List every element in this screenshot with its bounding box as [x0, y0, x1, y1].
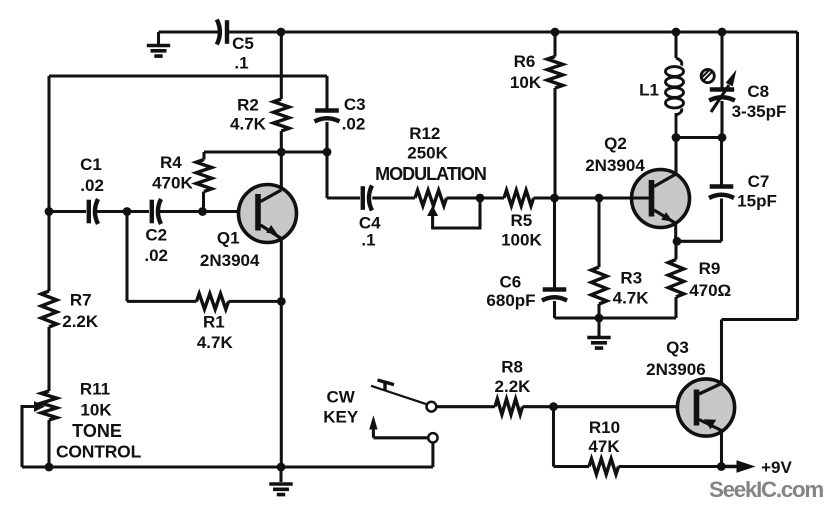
- wire C6 top lead: [553, 198, 556, 290]
- resistor R9: [668, 260, 684, 298]
- wire Q2 collector lead: [674, 138, 677, 176]
- node junction ground line R3: [595, 314, 604, 323]
- wire R3 top lead: [597, 198, 600, 267]
- switch contact top: [427, 402, 437, 412]
- wire ground stub R3: [597, 318, 600, 336]
- svg-text:4.7K: 4.7K: [613, 289, 650, 308]
- trimmer symbol C8: [701, 69, 714, 82]
- svg-text:C7: C7: [748, 172, 770, 191]
- svg-text:4.7K: 4.7K: [197, 333, 234, 352]
- wire left vertical upper: [47, 76, 50, 291]
- ground Q2 bias: [587, 338, 610, 349]
- node junction tank bottom C8: [718, 133, 727, 142]
- wire R11 wiper: [22, 407, 36, 468]
- resistor R4: [196, 160, 212, 192]
- wire C6 bottom lead: [553, 301, 556, 318]
- svg-text:.02: .02: [80, 176, 104, 195]
- svg-text:C3: C3: [344, 95, 366, 114]
- svg-text:10K: 10K: [80, 400, 112, 419]
- wire C8 top lead: [720, 32, 723, 90]
- arrowhead R12 wiper: [427, 206, 438, 217]
- transistor Q1 2N3904: [239, 185, 297, 243]
- svg-text:Q2: Q2: [604, 134, 627, 153]
- svg-text:R9: R9: [699, 259, 721, 278]
- wire Q2 emitter lead: [674, 224, 677, 242]
- wire R5 to junction: [534, 196, 649, 199]
- svg-text:R12: R12: [409, 124, 440, 143]
- wire base line left: [49, 210, 86, 213]
- arrowhead key throw: [369, 415, 377, 429]
- ground bottom middle: [269, 484, 292, 495]
- transistor Q3 2N3906: [677, 379, 734, 436]
- wire second rail: [49, 74, 327, 77]
- capacitor C7: [710, 184, 734, 188]
- svg-text:CW: CW: [327, 388, 356, 407]
- wire Q2 base lead: [599, 196, 650, 199]
- svg-text:680pF: 680pF: [486, 291, 535, 310]
- svg-text:R2: R2: [237, 96, 259, 115]
- svg-text:4.7K: 4.7K: [230, 115, 267, 134]
- svg-text:R7: R7: [70, 291, 92, 310]
- transistor Q2 2N3904: [632, 170, 690, 228]
- wire C3 top lead: [325, 76, 328, 111]
- svg-text:2.2K: 2.2K: [62, 312, 99, 331]
- node junction R8 R10: [549, 402, 558, 411]
- node junction top rail C8: [718, 28, 727, 37]
- arrowhead R11 wiper: [34, 401, 45, 412]
- arrowhead +9V: [737, 460, 756, 472]
- svg-text:C6: C6: [500, 273, 522, 292]
- node junction R12 wiper: [476, 194, 485, 203]
- svg-text:KEY: KEY: [323, 408, 359, 427]
- wire R10 left lead: [554, 407, 590, 467]
- svg-text:.02: .02: [342, 115, 366, 134]
- svg-text:100K: 100K: [501, 231, 542, 250]
- resistor R7: [41, 291, 57, 327]
- resistor R1: [197, 294, 229, 310]
- wire left vertical lower: [47, 420, 50, 467]
- svg-text:CONTROL: CONTROL: [56, 441, 142, 461]
- resistor R5: [504, 190, 534, 206]
- svg-text:.1: .1: [234, 53, 248, 72]
- wire R4 top lead and feedback line: [204, 152, 327, 160]
- resistor R12 potentiometer: [415, 190, 447, 206]
- svg-text:R10: R10: [589, 418, 620, 437]
- wire C3 bottom lead: [327, 122, 360, 198]
- node junction Q1 emitter bottom rail: [277, 463, 286, 472]
- capacitor C6: [543, 287, 567, 291]
- capacitor C2: [150, 200, 154, 224]
- svg-text:Q1: Q1: [217, 229, 240, 248]
- wire key to R8: [436, 405, 495, 408]
- wire key throw link: [373, 429, 428, 438]
- resistor R11 pot: [41, 391, 57, 420]
- capacitor C1: [87, 200, 91, 224]
- svg-text:MODULATION: MODULATION: [375, 164, 486, 184]
- wire bottom ground stub: [279, 467, 282, 482]
- wire Q1 emitter lead: [280, 239, 283, 468]
- wire ground stub top left: [157, 32, 160, 45]
- wire collector jog to Q3: [722, 320, 798, 386]
- node junction left vertical bottom rail: [45, 463, 54, 472]
- wire +9V arrow shaft: [721, 465, 738, 468]
- capacitor C5: [225, 20, 229, 44]
- svg-text:SeekIC.com: SeekIC.com: [709, 477, 823, 502]
- svg-text:R4: R4: [160, 153, 182, 172]
- wire C4 to R12: [372, 196, 415, 199]
- node junction top rail C5: [277, 28, 286, 37]
- wire left vertical middle: [47, 327, 50, 391]
- arrow C8 variable: [711, 85, 729, 112]
- svg-text:250K: 250K: [407, 144, 448, 163]
- wire R8 to Q3 base: [523, 405, 695, 408]
- node junction base R4: [198, 207, 207, 216]
- svg-text:3-35pF: 3-35pF: [732, 102, 787, 121]
- wire key lever: [371, 386, 427, 405]
- svg-text:L1: L1: [639, 81, 659, 100]
- svg-text:TONE: TONE: [72, 421, 122, 441]
- svg-text:470K: 470K: [152, 174, 193, 193]
- svg-text:10K: 10K: [510, 73, 542, 92]
- wire tank bottom: [676, 136, 722, 139]
- wire R12 wiper link: [433, 198, 480, 228]
- inductor L1: [666, 58, 684, 138]
- svg-text:47K: 47K: [588, 437, 620, 456]
- wire top rail C5 to right edge: [228, 30, 798, 33]
- node junction R1 emitter: [277, 297, 286, 306]
- wire bottom rail: [22, 465, 433, 468]
- wire R1 left lead: [127, 212, 197, 302]
- svg-text:C2: C2: [145, 226, 167, 245]
- svg-text:C8: C8: [747, 82, 769, 101]
- wire R12 to R5: [447, 196, 505, 199]
- wire C8 bottom lead: [720, 101, 723, 138]
- capacitor C3: [315, 108, 339, 112]
- svg-text:R6: R6: [514, 52, 536, 71]
- wire right edge vertical: [796, 32, 799, 320]
- node junction base line left: [45, 207, 54, 216]
- node junction collector Q1: [277, 148, 286, 157]
- svg-text:R1: R1: [203, 313, 225, 332]
- node junction C3 feedback: [323, 148, 332, 157]
- wire R10 to +9V junction: [619, 465, 722, 468]
- wire R9 bottom lead: [674, 297, 677, 318]
- capacitor C8 variable: [710, 87, 734, 91]
- wire C7 bottom lead: [677, 199, 722, 242]
- svg-text:C4: C4: [359, 214, 381, 233]
- capacitor C4: [361, 186, 365, 210]
- wire R9 top lead: [674, 241, 677, 259]
- wire L1 top lead: [674, 32, 677, 58]
- wire emitter ground line: [555, 316, 677, 319]
- svg-text:R5: R5: [511, 211, 533, 230]
- resistor R6: [547, 57, 563, 89]
- svg-text:470Ω: 470Ω: [689, 281, 731, 300]
- wire top rail left segment: [159, 30, 219, 33]
- svg-text:2N3904: 2N3904: [200, 251, 260, 270]
- wire R1 right lead: [229, 300, 282, 303]
- node junction C1-C2: [123, 207, 132, 216]
- node junction tank bottom L1: [672, 133, 681, 142]
- svg-text:15pF: 15pF: [737, 191, 777, 210]
- resistor R8: [495, 399, 523, 415]
- svg-text:C1: C1: [80, 155, 102, 174]
- svg-text:2.2K: 2.2K: [495, 377, 532, 396]
- svg-text:2N3906: 2N3906: [646, 360, 706, 379]
- svg-text:R3: R3: [620, 268, 642, 287]
- svg-text:Q3: Q3: [666, 338, 689, 357]
- svg-text:C5: C5: [232, 34, 254, 53]
- wire R6 bottom lead: [553, 88, 556, 198]
- resistor R2: [274, 99, 290, 131]
- switch contact bottom: [428, 433, 437, 442]
- wire R3 bottom lead: [597, 304, 600, 318]
- svg-text:.1: .1: [361, 231, 375, 250]
- svg-text:+9V: +9V: [761, 458, 792, 477]
- wire C2 to Q1 base: [159, 210, 255, 213]
- wire Q3 emitter lead: [720, 431, 723, 467]
- wire R4 bottom lead: [202, 192, 205, 212]
- node junction top rail L1: [672, 28, 681, 37]
- wire R2 top lead: [280, 32, 283, 99]
- svg-text:R11: R11: [80, 380, 110, 399]
- node junction base Q2 left: [550, 194, 559, 203]
- resistor R10: [589, 459, 619, 475]
- svg-text:2N3904: 2N3904: [585, 156, 645, 175]
- key knob: [378, 380, 395, 391]
- svg-text:R8: R8: [501, 358, 523, 377]
- resistor R3: [591, 267, 607, 304]
- svg-text:.02: .02: [144, 246, 168, 265]
- node junction +9V: [717, 462, 726, 471]
- node junction top rail R6: [551, 28, 560, 37]
- wire C1 to C2: [96, 210, 149, 213]
- wire R2 bottom lead: [280, 131, 283, 190]
- wire key bottom lead: [431, 443, 434, 468]
- node junction Q2 emitter: [673, 237, 682, 246]
- node junction base Q2 R3: [595, 194, 604, 203]
- ground top left: [147, 46, 170, 57]
- wire C7 top lead: [720, 138, 723, 188]
- wire R6 top lead: [553, 32, 556, 57]
